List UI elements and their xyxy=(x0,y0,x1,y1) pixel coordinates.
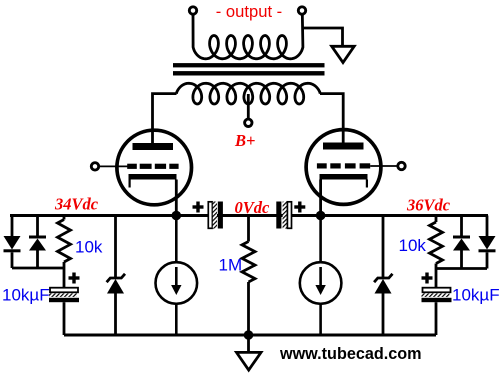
diode D4 (far right, pointing down) xyxy=(479,216,496,269)
zener diode Z1 (left) xyxy=(107,216,125,336)
junction node center bottom xyxy=(244,330,254,340)
terminal B+ center tap xyxy=(245,119,252,126)
terminal grid V1 xyxy=(91,163,98,170)
wire right resistor node to diodes xyxy=(436,267,487,270)
svg-text:0Vdc: 0Vdc xyxy=(235,198,271,217)
terminal secondary left xyxy=(189,7,196,14)
ground (top right) xyxy=(332,46,355,62)
svg-text:10k: 10k xyxy=(75,238,103,257)
svg-text:B+: B+ xyxy=(234,131,255,150)
capacitor C3 (right coupling electrolytic on rail) xyxy=(276,202,305,229)
zener diode Z2 (right) xyxy=(374,216,392,336)
svg-text:10kµF: 10kµF xyxy=(452,285,500,304)
cathode V2 xyxy=(320,174,368,180)
diode D3 (right inner, pointing up) xyxy=(453,216,470,269)
cathode V1 xyxy=(129,174,177,180)
triode V1 (left tube) xyxy=(91,130,191,215)
primary winding of output transformer xyxy=(176,83,320,104)
wire primary left end to left tube plate xyxy=(153,94,177,144)
terminal grid V2 xyxy=(398,162,405,169)
wire center tap B+ xyxy=(247,94,250,119)
wire left diodes to resistor node xyxy=(12,267,64,270)
wire cathode V1 to rail xyxy=(175,180,178,216)
svg-text:36Vdc: 36Vdc xyxy=(406,196,451,215)
resistor R3 10k (right) xyxy=(430,216,443,288)
cathode rail wire xyxy=(10,214,488,217)
svg-text:10kµF: 10kµF xyxy=(2,285,50,304)
grid V1 xyxy=(127,164,178,169)
transformer core xyxy=(173,63,325,67)
svg-text:1M: 1M xyxy=(219,256,243,275)
plate V2 xyxy=(323,143,364,150)
junction node left cathode xyxy=(172,211,182,221)
svg-text:34Vdc: 34Vdc xyxy=(54,195,99,214)
secondary winding of output transformer xyxy=(193,13,303,59)
diode D1 (far left, pointing down) xyxy=(4,216,21,269)
svg-text:www.tubecad.com: www.tubecad.com xyxy=(279,345,422,363)
current source I2 (right) xyxy=(300,216,342,336)
triode V2 (right tube) xyxy=(306,130,405,216)
wire primary right end to right tube plate xyxy=(320,94,343,144)
diode D2 (left inner, pointing up) xyxy=(29,216,46,269)
capacitor C2 (left coupling electrolytic on rail) xyxy=(193,202,223,229)
svg-text:10k: 10k xyxy=(399,236,427,255)
current source I1 (left) xyxy=(156,216,198,336)
resistor R2 1M xyxy=(242,216,255,336)
wire cathode V2 to rail xyxy=(319,180,322,216)
wire from secondary right terminal to ground xyxy=(302,28,343,46)
svg-text:- output -: - output - xyxy=(216,2,282,21)
capacitor C4 10kuF (right electrolytic) xyxy=(422,273,452,336)
ground (bottom center) xyxy=(237,335,262,370)
resistor R1 10k (left) xyxy=(58,216,71,288)
plate V1 xyxy=(133,143,174,150)
capacitor C1 10kuF (left electrolytic) xyxy=(49,273,80,336)
junction node right cathode xyxy=(316,211,326,221)
grid V2 xyxy=(317,163,370,168)
terminal secondary right xyxy=(298,7,305,14)
bottom rail wire xyxy=(64,334,436,337)
